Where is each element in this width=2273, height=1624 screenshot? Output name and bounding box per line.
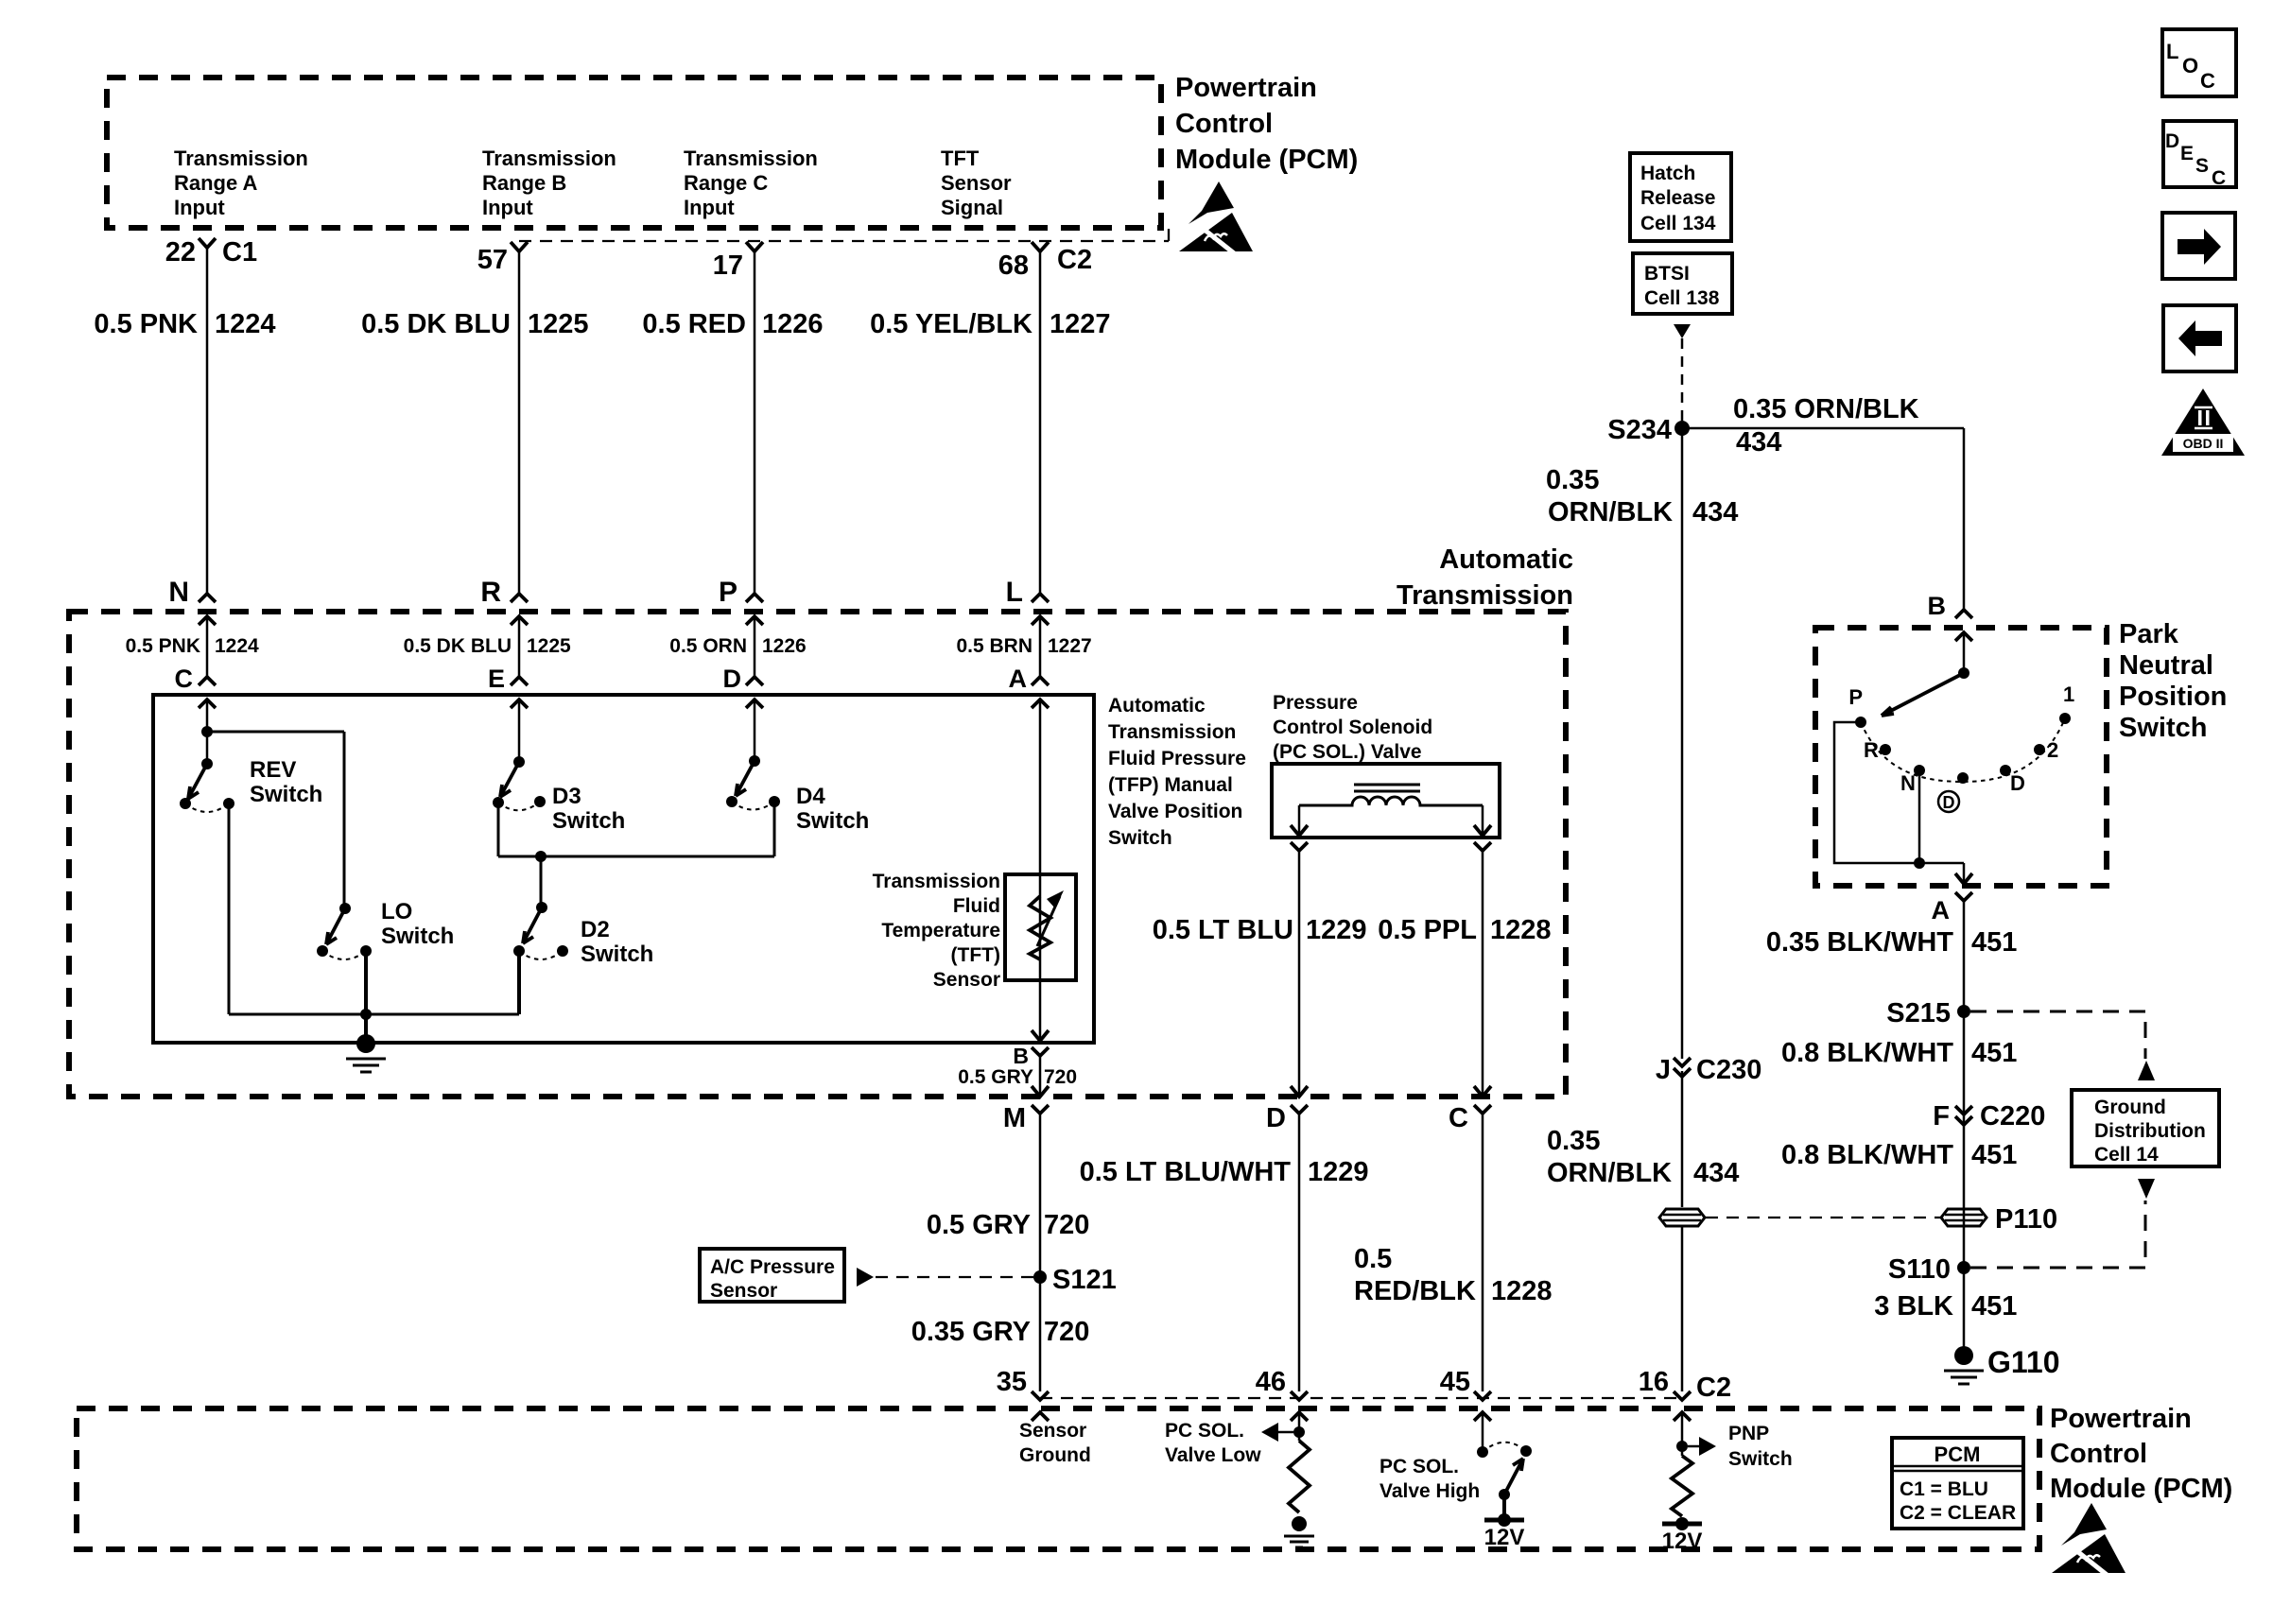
svg-text:0.5 RED: 0.5 RED [642, 309, 746, 339]
svg-text:E: E [488, 665, 505, 693]
svg-text:LO: LO [381, 899, 412, 924]
svg-text:12V: 12V [1662, 1529, 1703, 1554]
svg-text:0.5 LT BLU/WHT: 0.5 LT BLU/WHT [1080, 1157, 1292, 1187]
svg-text:Automatic: Automatic [1108, 695, 1206, 717]
svg-text:Switch: Switch [381, 924, 454, 949]
svg-text:D: D [1266, 1103, 1286, 1133]
svg-text:M: M [1003, 1103, 1026, 1133]
svg-text:0.5 GRY: 0.5 GRY [927, 1210, 1031, 1240]
svg-text:Cell 138: Cell 138 [1644, 287, 1720, 309]
svg-text:A: A [1932, 896, 1951, 924]
svg-text:Sensor: Sensor [710, 1280, 777, 1302]
svg-text:(TFT): (TFT) [951, 944, 1000, 966]
svg-text:Range B: Range B [482, 171, 566, 195]
svg-text:1227: 1227 [1048, 635, 1092, 657]
svg-text:C1 = BLU: C1 = BLU [1900, 1478, 1988, 1500]
svg-text:PC SOL.: PC SOL. [1379, 1456, 1459, 1477]
svg-text:L: L [2166, 40, 2178, 63]
svg-text:Neutral: Neutral [2119, 650, 2213, 681]
svg-text:C220: C220 [1980, 1101, 2045, 1132]
svg-text:Valve Position: Valve Position [1108, 801, 1242, 822]
svg-text:Automatic: Automatic [1439, 544, 1573, 575]
svg-text:0.5 GRY: 0.5 GRY [958, 1066, 1033, 1088]
svg-text:Transmission: Transmission [684, 147, 818, 170]
svg-text:R: R [480, 577, 501, 608]
svg-text:1229: 1229 [1308, 1157, 1369, 1187]
svg-text:Pressure: Pressure [1273, 692, 1358, 714]
svg-text:D2: D2 [581, 917, 610, 942]
svg-text:Transmission: Transmission [873, 871, 1000, 892]
svg-text:C1: C1 [222, 237, 257, 268]
svg-text:1224: 1224 [215, 635, 259, 657]
svg-text:720: 720 [1044, 1317, 1089, 1347]
svg-text:Switch: Switch [796, 808, 869, 834]
svg-text:S234: S234 [1607, 415, 1672, 445]
svg-text:C230: C230 [1696, 1055, 1761, 1085]
svg-text:Fluid: Fluid [953, 895, 1000, 917]
svg-text:Park: Park [2119, 619, 2179, 649]
svg-text:O: O [2182, 54, 2198, 78]
svg-text:(PC SOL.) Valve: (PC SOL.) Valve [1273, 741, 1422, 763]
svg-text:0.35: 0.35 [1546, 465, 1599, 495]
svg-text:PC SOL.: PC SOL. [1165, 1420, 1244, 1442]
svg-text:1225: 1225 [528, 309, 589, 339]
svg-text:D3: D3 [552, 784, 581, 809]
svg-text:Ground: Ground [1019, 1444, 1091, 1466]
svg-text:1228: 1228 [1490, 915, 1552, 945]
svg-text:17: 17 [713, 251, 743, 281]
svg-text:1228: 1228 [1491, 1276, 1553, 1306]
svg-text:B: B [1928, 592, 1947, 620]
svg-text:Range C: Range C [684, 171, 768, 195]
svg-text:Sensor: Sensor [933, 969, 1000, 991]
svg-text:45: 45 [1440, 1367, 1470, 1397]
svg-text:D: D [2010, 771, 2025, 795]
svg-text:C2: C2 [1696, 1373, 1731, 1403]
svg-text:P110: P110 [1995, 1204, 2057, 1235]
svg-text:Input: Input [174, 196, 225, 219]
svg-text:57: 57 [477, 245, 508, 275]
svg-text:451: 451 [1971, 1038, 2017, 1068]
svg-text:Switch: Switch [552, 808, 625, 834]
svg-text:451: 451 [1971, 927, 2017, 958]
svg-text:Switch: Switch [581, 942, 653, 967]
svg-text:Transmission: Transmission [482, 147, 616, 170]
svg-text:BTSI: BTSI [1644, 263, 1690, 285]
svg-text:P: P [719, 577, 737, 608]
svg-text:Fluid Pressure: Fluid Pressure [1108, 748, 1246, 769]
svg-text:ORN/BLK: ORN/BLK [1548, 497, 1673, 527]
svg-text:0.5 PPL: 0.5 PPL [1378, 915, 1477, 945]
svg-text:0.5 BRN: 0.5 BRN [956, 635, 1032, 657]
svg-text:Range A: Range A [174, 171, 258, 195]
svg-text:Powertrain: Powertrain [2050, 1404, 2192, 1434]
svg-text:C: C [1449, 1103, 1468, 1133]
svg-text:Module (PCM): Module (PCM) [2050, 1474, 2232, 1504]
svg-text:434: 434 [1692, 497, 1738, 527]
svg-text:F: F [1933, 1101, 1950, 1132]
svg-text:P: P [1848, 685, 1863, 709]
svg-text:0.5 YEL/BLK: 0.5 YEL/BLK [870, 309, 1032, 339]
svg-text:A/C Pressure: A/C Pressure [710, 1256, 835, 1278]
svg-text:451: 451 [1971, 1140, 2017, 1170]
svg-text:Module (PCM): Module (PCM) [1175, 145, 1358, 175]
svg-text:0.35 GRY: 0.35 GRY [911, 1317, 1031, 1347]
svg-text:2: 2 [2047, 738, 2058, 762]
svg-text:Cell 14: Cell 14 [2094, 1144, 2159, 1166]
svg-text:Ground: Ground [2094, 1097, 2166, 1118]
svg-text:B: B [1013, 1044, 1029, 1068]
svg-text:0.5 PNK: 0.5 PNK [126, 635, 200, 657]
svg-text:Switch: Switch [1728, 1448, 1793, 1470]
svg-text:S110: S110 [1888, 1254, 1951, 1285]
svg-text:1: 1 [2063, 682, 2074, 706]
svg-text:Temperature: Temperature [881, 920, 1000, 942]
svg-text:Control: Control [2050, 1439, 2147, 1469]
svg-text:720: 720 [1044, 1066, 1077, 1088]
svg-text:ORN/BLK: ORN/BLK [1547, 1158, 1672, 1188]
svg-text:N: N [1900, 771, 1916, 795]
svg-text:REV: REV [250, 757, 296, 783]
svg-text:D: D [1943, 793, 1955, 812]
svg-text:L: L [1006, 577, 1023, 608]
svg-text:Control Solenoid: Control Solenoid [1273, 717, 1432, 738]
svg-text:0.8 BLK/WHT: 0.8 BLK/WHT [1781, 1140, 1953, 1170]
svg-text:E: E [2180, 143, 2194, 164]
svg-text:35: 35 [997, 1367, 1027, 1397]
svg-text:PNP: PNP [1728, 1423, 1769, 1444]
svg-text:C2: C2 [1057, 245, 1092, 275]
svg-text:3 BLK: 3 BLK [1874, 1291, 1953, 1322]
svg-text:C: C [2200, 69, 2215, 93]
svg-text:0.5 ORN: 0.5 ORN [669, 635, 747, 657]
svg-text:Position: Position [2119, 682, 2227, 712]
svg-text:Valve High: Valve High [1379, 1480, 1480, 1502]
svg-text:RED/BLK: RED/BLK [1354, 1276, 1476, 1306]
svg-text:0.5: 0.5 [1354, 1244, 1392, 1274]
svg-text:Transmission: Transmission [1108, 721, 1236, 743]
svg-text:0.35 BLK/WHT: 0.35 BLK/WHT [1766, 927, 1953, 958]
svg-text:434: 434 [1736, 427, 1781, 458]
svg-text:1226: 1226 [762, 309, 824, 339]
svg-text:0.5 PNK: 0.5 PNK [94, 309, 198, 339]
svg-text:Signal: Signal [941, 196, 1003, 219]
svg-text:Sensor: Sensor [1019, 1420, 1086, 1442]
svg-text:12V: 12V [1484, 1525, 1525, 1550]
svg-text:Powertrain: Powertrain [1175, 73, 1317, 103]
svg-text:TFT: TFT [941, 147, 980, 170]
svg-text:Sensor: Sensor [941, 171, 1012, 195]
svg-text:N: N [168, 577, 189, 608]
svg-text:D: D [2165, 130, 2179, 152]
svg-text:434: 434 [1693, 1158, 1739, 1188]
svg-text:PCM: PCM [1935, 1443, 1981, 1466]
svg-text:Switch: Switch [250, 782, 322, 807]
svg-text:A: A [1009, 665, 1028, 693]
svg-text:S: S [2195, 155, 2209, 177]
svg-text:D: D [723, 665, 742, 693]
svg-text:0.5 DK BLU: 0.5 DK BLU [361, 309, 511, 339]
svg-text:0.35: 0.35 [1547, 1126, 1600, 1156]
svg-text:Transmission: Transmission [1397, 580, 1573, 611]
svg-text:Switch: Switch [2119, 713, 2207, 743]
svg-text:Distribution: Distribution [2094, 1120, 2206, 1142]
svg-text:46: 46 [1256, 1367, 1286, 1397]
svg-text:Switch: Switch [1108, 827, 1172, 849]
svg-text:1226: 1226 [762, 635, 807, 657]
svg-text:C: C [175, 665, 194, 693]
svg-text:1229: 1229 [1306, 915, 1367, 945]
svg-text:Cell 134: Cell 134 [1640, 213, 1716, 234]
svg-text:Input: Input [482, 196, 533, 219]
svg-text:R: R [1864, 738, 1879, 762]
svg-text:C: C [2212, 167, 2226, 189]
svg-text:S121: S121 [1052, 1265, 1117, 1295]
svg-text:Hatch: Hatch [1640, 163, 1695, 184]
svg-text:(TFP) Manual: (TFP) Manual [1108, 774, 1233, 796]
svg-text:1227: 1227 [1050, 309, 1111, 339]
svg-text:Input: Input [684, 196, 735, 219]
svg-text:Transmission: Transmission [174, 147, 308, 170]
svg-text:0.8 BLK/WHT: 0.8 BLK/WHT [1781, 1038, 1953, 1068]
svg-text:22: 22 [165, 237, 196, 268]
svg-text:J: J [1656, 1055, 1671, 1085]
svg-text:Valve Low: Valve Low [1165, 1444, 1261, 1466]
svg-text:D4: D4 [796, 784, 825, 809]
svg-text:Control: Control [1175, 109, 1273, 139]
svg-text:720: 720 [1044, 1210, 1089, 1240]
svg-text:C2 = CLEAR: C2 = CLEAR [1900, 1502, 2016, 1524]
svg-text:S215: S215 [1886, 998, 1951, 1028]
svg-text:68: 68 [998, 251, 1029, 281]
svg-text:G110: G110 [1987, 1345, 2060, 1379]
svg-text:16: 16 [1639, 1367, 1669, 1397]
svg-text:0.35 ORN/BLK: 0.35 ORN/BLK [1733, 394, 1919, 424]
svg-text:1224: 1224 [215, 309, 276, 339]
svg-text:Release: Release [1640, 187, 1715, 209]
svg-text:0.5 DK BLU: 0.5 DK BLU [404, 635, 512, 657]
svg-text:OBD II: OBD II [2183, 436, 2224, 451]
svg-text:0.5 LT BLU: 0.5 LT BLU [1153, 915, 1293, 945]
svg-text:451: 451 [1971, 1291, 2017, 1322]
svg-text:1225: 1225 [527, 635, 571, 657]
